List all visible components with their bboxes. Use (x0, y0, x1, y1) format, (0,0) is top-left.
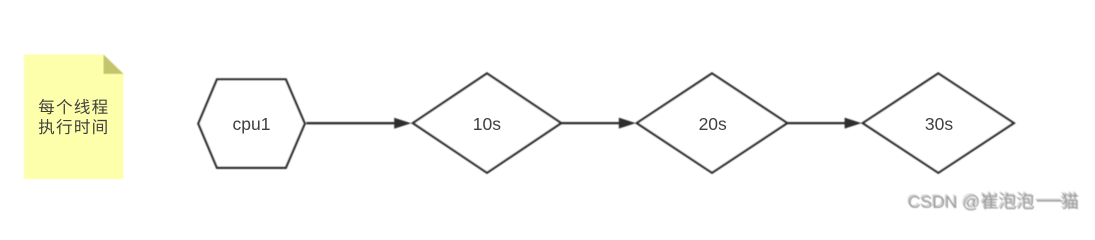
svg-text:CSDN @: CSDN @ (908, 192, 980, 212)
svg-text:10s: 10s (473, 114, 501, 134)
svg-text:cpu1: cpu1 (233, 114, 271, 134)
svg-text:20s: 20s (699, 114, 727, 134)
svg-text:30s: 30s (925, 114, 953, 134)
